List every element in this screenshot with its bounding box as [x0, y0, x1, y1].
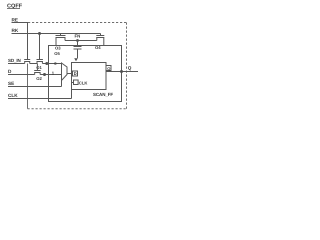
node dot on RK: [38, 32, 41, 35]
svg-text:CLK: CLK: [8, 93, 18, 98]
node dot FN: [76, 39, 79, 42]
transistor O1: [37, 60, 43, 64]
svg-text:RK: RK: [12, 28, 19, 33]
svg-text:FN: FN: [75, 34, 81, 39]
wire D: [8, 74, 35, 76]
label SD_IN: [8, 58, 21, 63]
svg-text:O2: O2: [36, 76, 42, 81]
label O1: [36, 65, 42, 70]
wire SE: [8, 86, 62, 88]
svg-text:D: D: [74, 71, 77, 76]
transistor O3: [56, 34, 66, 46]
title CQFF: [7, 4, 23, 10]
label O3: [55, 46, 61, 51]
pin label D: [74, 71, 77, 76]
mux input label 1: [52, 70, 55, 75]
wire CLK: [8, 98, 72, 100]
wire RK branch vertical: [39, 34, 41, 60]
wire RE horizontal solid stub: [12, 22, 29, 24]
transistor O4: [96, 34, 104, 46]
svg-text:CLK: CLK: [79, 80, 88, 85]
wire SD_IN: [8, 63, 25, 65]
wire RE dashed bottom return: [28, 108, 127, 110]
node dot Q at box edge: [120, 70, 123, 73]
svg-text:Q: Q: [107, 66, 110, 71]
svg-text:SD_IN: SD_IN: [8, 58, 21, 63]
label SCAN_FF: [93, 92, 113, 97]
svg-text:SCAN_FF: SCAN_FF: [93, 92, 113, 97]
svg-text:SE: SE: [8, 81, 14, 86]
wire RE branch vertical: [27, 23, 29, 60]
label Q output: [128, 65, 132, 70]
pin square D: [73, 71, 78, 76]
node dot SD_IN at box edge: [45, 62, 48, 65]
label RE: [12, 17, 19, 22]
wire mux output: [67, 73, 73, 75]
svg-text:O5: O5: [54, 51, 60, 56]
label O2: [36, 76, 42, 81]
pin square CLK: [74, 80, 79, 85]
wire RK horizontal: [12, 33, 101, 35]
wire RE dashed vertical to Q: [126, 23, 128, 109]
label CLK: [8, 93, 18, 98]
wire RE dashed horizontal: [28, 22, 127, 24]
wire RE left return vertical: [27, 64, 29, 109]
transistor O2 on D wire: [34, 64, 40, 75]
flip-flop box: [72, 63, 107, 90]
title underline: [7, 8, 20, 10]
arrow into flip-flop: [74, 58, 78, 61]
pin label Q: [107, 66, 110, 71]
mux input label 0: [54, 61, 57, 66]
label SE: [8, 81, 14, 86]
pin label CLK: [79, 80, 88, 85]
wire Q output: [106, 71, 138, 73]
label O4: [95, 45, 101, 50]
wire CLK up to FF: [71, 83, 73, 99]
mux (scan multiplexer): [62, 63, 68, 81]
svg-text:Q: Q: [128, 65, 132, 70]
pass transistor on SD_IN (RE gated): [24, 60, 30, 64]
wire SE up to mux: [61, 80, 63, 87]
pin square Q: [106, 66, 111, 71]
node dot D at box edge: [43, 73, 46, 76]
label D input: [8, 69, 12, 74]
label RK: [12, 28, 19, 33]
label FN: [75, 34, 81, 39]
svg-text:RE: RE: [12, 17, 19, 22]
label O5: [54, 51, 60, 56]
node FN wire: [65, 40, 97, 42]
outer box SCAN_FF: [49, 46, 122, 102]
capacitor on FN: [74, 41, 82, 59]
